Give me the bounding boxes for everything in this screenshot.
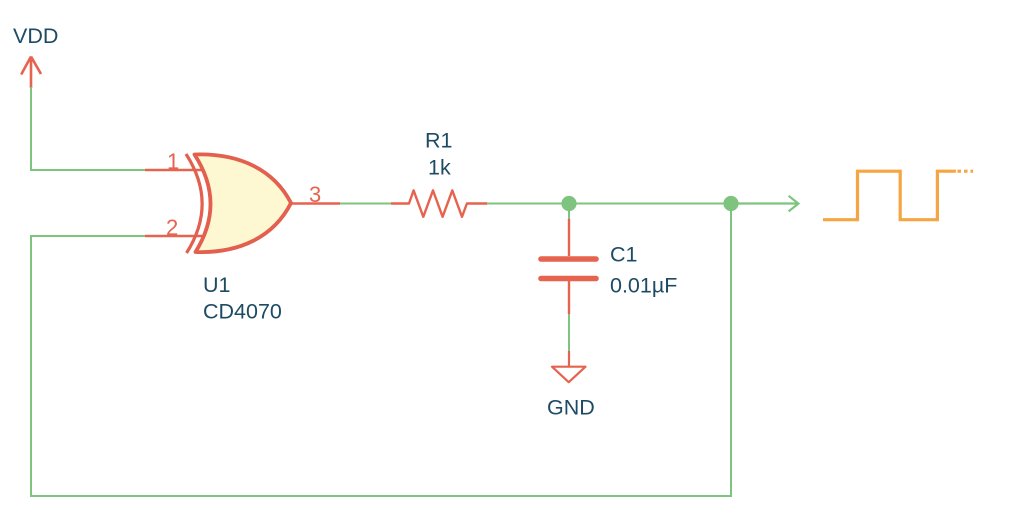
xor gate U1 pin 3 lead bbox=[291, 202, 340, 204]
svg-text:GND: GND bbox=[547, 396, 595, 420]
wire gate output to resistor bbox=[340, 203, 391, 205]
capacitor C1 plates bbox=[541, 259, 596, 279]
svg-text:2: 2 bbox=[166, 215, 178, 240]
xor gate U1 pin 1 lead bbox=[145, 169, 203, 171]
svg-text:1k: 1k bbox=[428, 156, 451, 180]
xor gate U1 input arc bbox=[186, 154, 202, 253]
wire node A to node B bbox=[569, 203, 731, 205]
wire output arrow bbox=[731, 196, 798, 212]
ground symbol bbox=[552, 351, 586, 382]
wire VDD to pin1 bbox=[31, 87, 145, 170]
svg-text:0.01µF: 0.01µF bbox=[610, 274, 677, 298]
svg-text:C1: C1 bbox=[610, 243, 637, 267]
square wave output signal bbox=[823, 171, 973, 220]
xor gate U1 body bbox=[195, 154, 292, 252]
node B junction dot bbox=[723, 196, 738, 211]
svg-text:R1: R1 bbox=[425, 129, 452, 153]
xor gate U1 pin 2 lead bbox=[145, 235, 203, 237]
capacitor C1 lead top bbox=[568, 219, 570, 256]
power symbol VDD arrow bbox=[21, 57, 41, 89]
wire resistor to node A bbox=[487, 203, 569, 205]
svg-text:U1: U1 bbox=[203, 273, 230, 297]
svg-text:3: 3 bbox=[309, 182, 321, 207]
capacitor C1 lead bottom bbox=[568, 281, 570, 314]
wire feedback loop bbox=[31, 204, 731, 497]
wire cap bottom to gnd bbox=[568, 313, 570, 352]
svg-text:VDD: VDD bbox=[13, 24, 58, 48]
node A junction dot bbox=[561, 196, 576, 211]
resistor R1 bbox=[391, 190, 487, 216]
wire cap top stub bbox=[568, 210, 570, 220]
svg-text:1: 1 bbox=[167, 149, 179, 174]
svg-text:CD4070: CD4070 bbox=[203, 300, 282, 324]
